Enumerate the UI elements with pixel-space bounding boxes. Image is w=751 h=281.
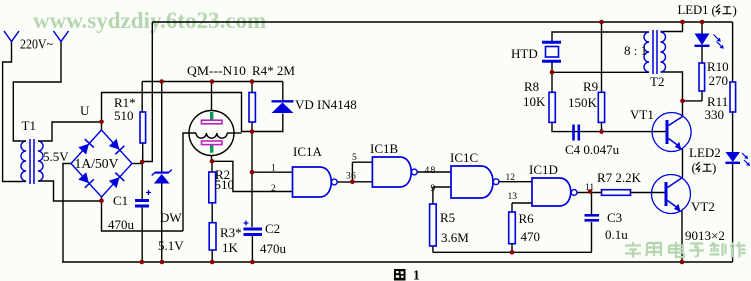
svg-text:R10: R10: [707, 59, 729, 74]
svg-text:510: 510: [114, 108, 134, 123]
svg-text:LED2: LED2: [689, 145, 721, 160]
svg-text:IC1A: IC1A: [293, 144, 323, 159]
svg-text:0.1u: 0.1u: [605, 227, 628, 242]
svg-text:R4* 2M: R4* 2M: [252, 63, 295, 78]
svg-text:11: 11: [585, 183, 594, 193]
svg-text:): ): [712, 160, 716, 175]
svg-text:330: 330: [705, 107, 725, 122]
svg-text:5.1V: 5.1V: [158, 238, 184, 253]
svg-text:510: 510: [215, 177, 235, 192]
svg-text:13: 13: [508, 192, 518, 202]
svg-text:IC1D: IC1D: [529, 162, 558, 177]
svg-text:www.sydzdiy.6to23.com: www.sydzdiy.6to23.com: [33, 8, 266, 33]
svg-text:C2: C2: [265, 221, 280, 236]
svg-text:LED1: LED1: [678, 2, 709, 17]
svg-text:T2: T2: [650, 74, 664, 89]
svg-text:HTD: HTD: [511, 46, 538, 61]
svg-text:270: 270: [709, 73, 729, 88]
svg-text:C4 0.047u: C4 0.047u: [565, 142, 620, 157]
svg-text:C3: C3: [607, 210, 622, 225]
svg-text:R9: R9: [583, 79, 598, 94]
svg-text:9013×2: 9013×2: [685, 228, 725, 243]
svg-text:470u: 470u: [260, 241, 287, 256]
svg-text:1: 1: [413, 268, 420, 281]
svg-text:R6: R6: [519, 211, 535, 226]
svg-text:VT1: VT1: [630, 107, 654, 122]
svg-text:C1: C1: [113, 193, 128, 208]
svg-text:T1: T1: [22, 118, 36, 133]
svg-text:8 : 1: 8 : 1: [624, 43, 647, 58]
svg-text:): ): [733, 3, 737, 18]
svg-text:220V~: 220V~: [20, 38, 53, 53]
svg-text:3.6M: 3.6M: [441, 230, 469, 245]
svg-text:R7 2.2K: R7 2.2K: [597, 170, 642, 185]
svg-text:U: U: [80, 103, 90, 118]
svg-text:QM---N10: QM---N10: [187, 63, 246, 78]
svg-text:470: 470: [521, 229, 541, 244]
svg-text:6: 6: [351, 172, 356, 182]
svg-text:4: 4: [425, 166, 430, 176]
svg-text:12: 12: [506, 173, 516, 183]
svg-text:1A/50V: 1A/50V: [75, 157, 119, 172]
svg-text:R8: R8: [524, 79, 539, 94]
svg-text:DW: DW: [160, 210, 182, 225]
svg-text:150K: 150K: [568, 95, 598, 110]
svg-text:1: 1: [271, 164, 276, 174]
svg-text:IC1B: IC1B: [370, 141, 399, 156]
svg-text:5: 5: [352, 153, 357, 163]
svg-text:(: (: [692, 160, 696, 175]
svg-text:1K: 1K: [222, 240, 239, 255]
svg-text:VD IN4148: VD IN4148: [295, 97, 357, 112]
svg-text:VT2: VT2: [691, 199, 715, 214]
svg-text:470u: 470u: [108, 217, 135, 232]
svg-text:R5: R5: [440, 210, 455, 225]
svg-text:8: 8: [431, 166, 436, 176]
svg-text:(: (: [712, 3, 716, 18]
svg-text:5.5V: 5.5V: [43, 149, 69, 164]
svg-text:R3*: R3*: [220, 225, 242, 240]
svg-text:2: 2: [271, 184, 276, 194]
svg-text:10K: 10K: [523, 94, 546, 109]
svg-text:9: 9: [431, 184, 436, 194]
svg-text:IC1C: IC1C: [450, 150, 478, 165]
